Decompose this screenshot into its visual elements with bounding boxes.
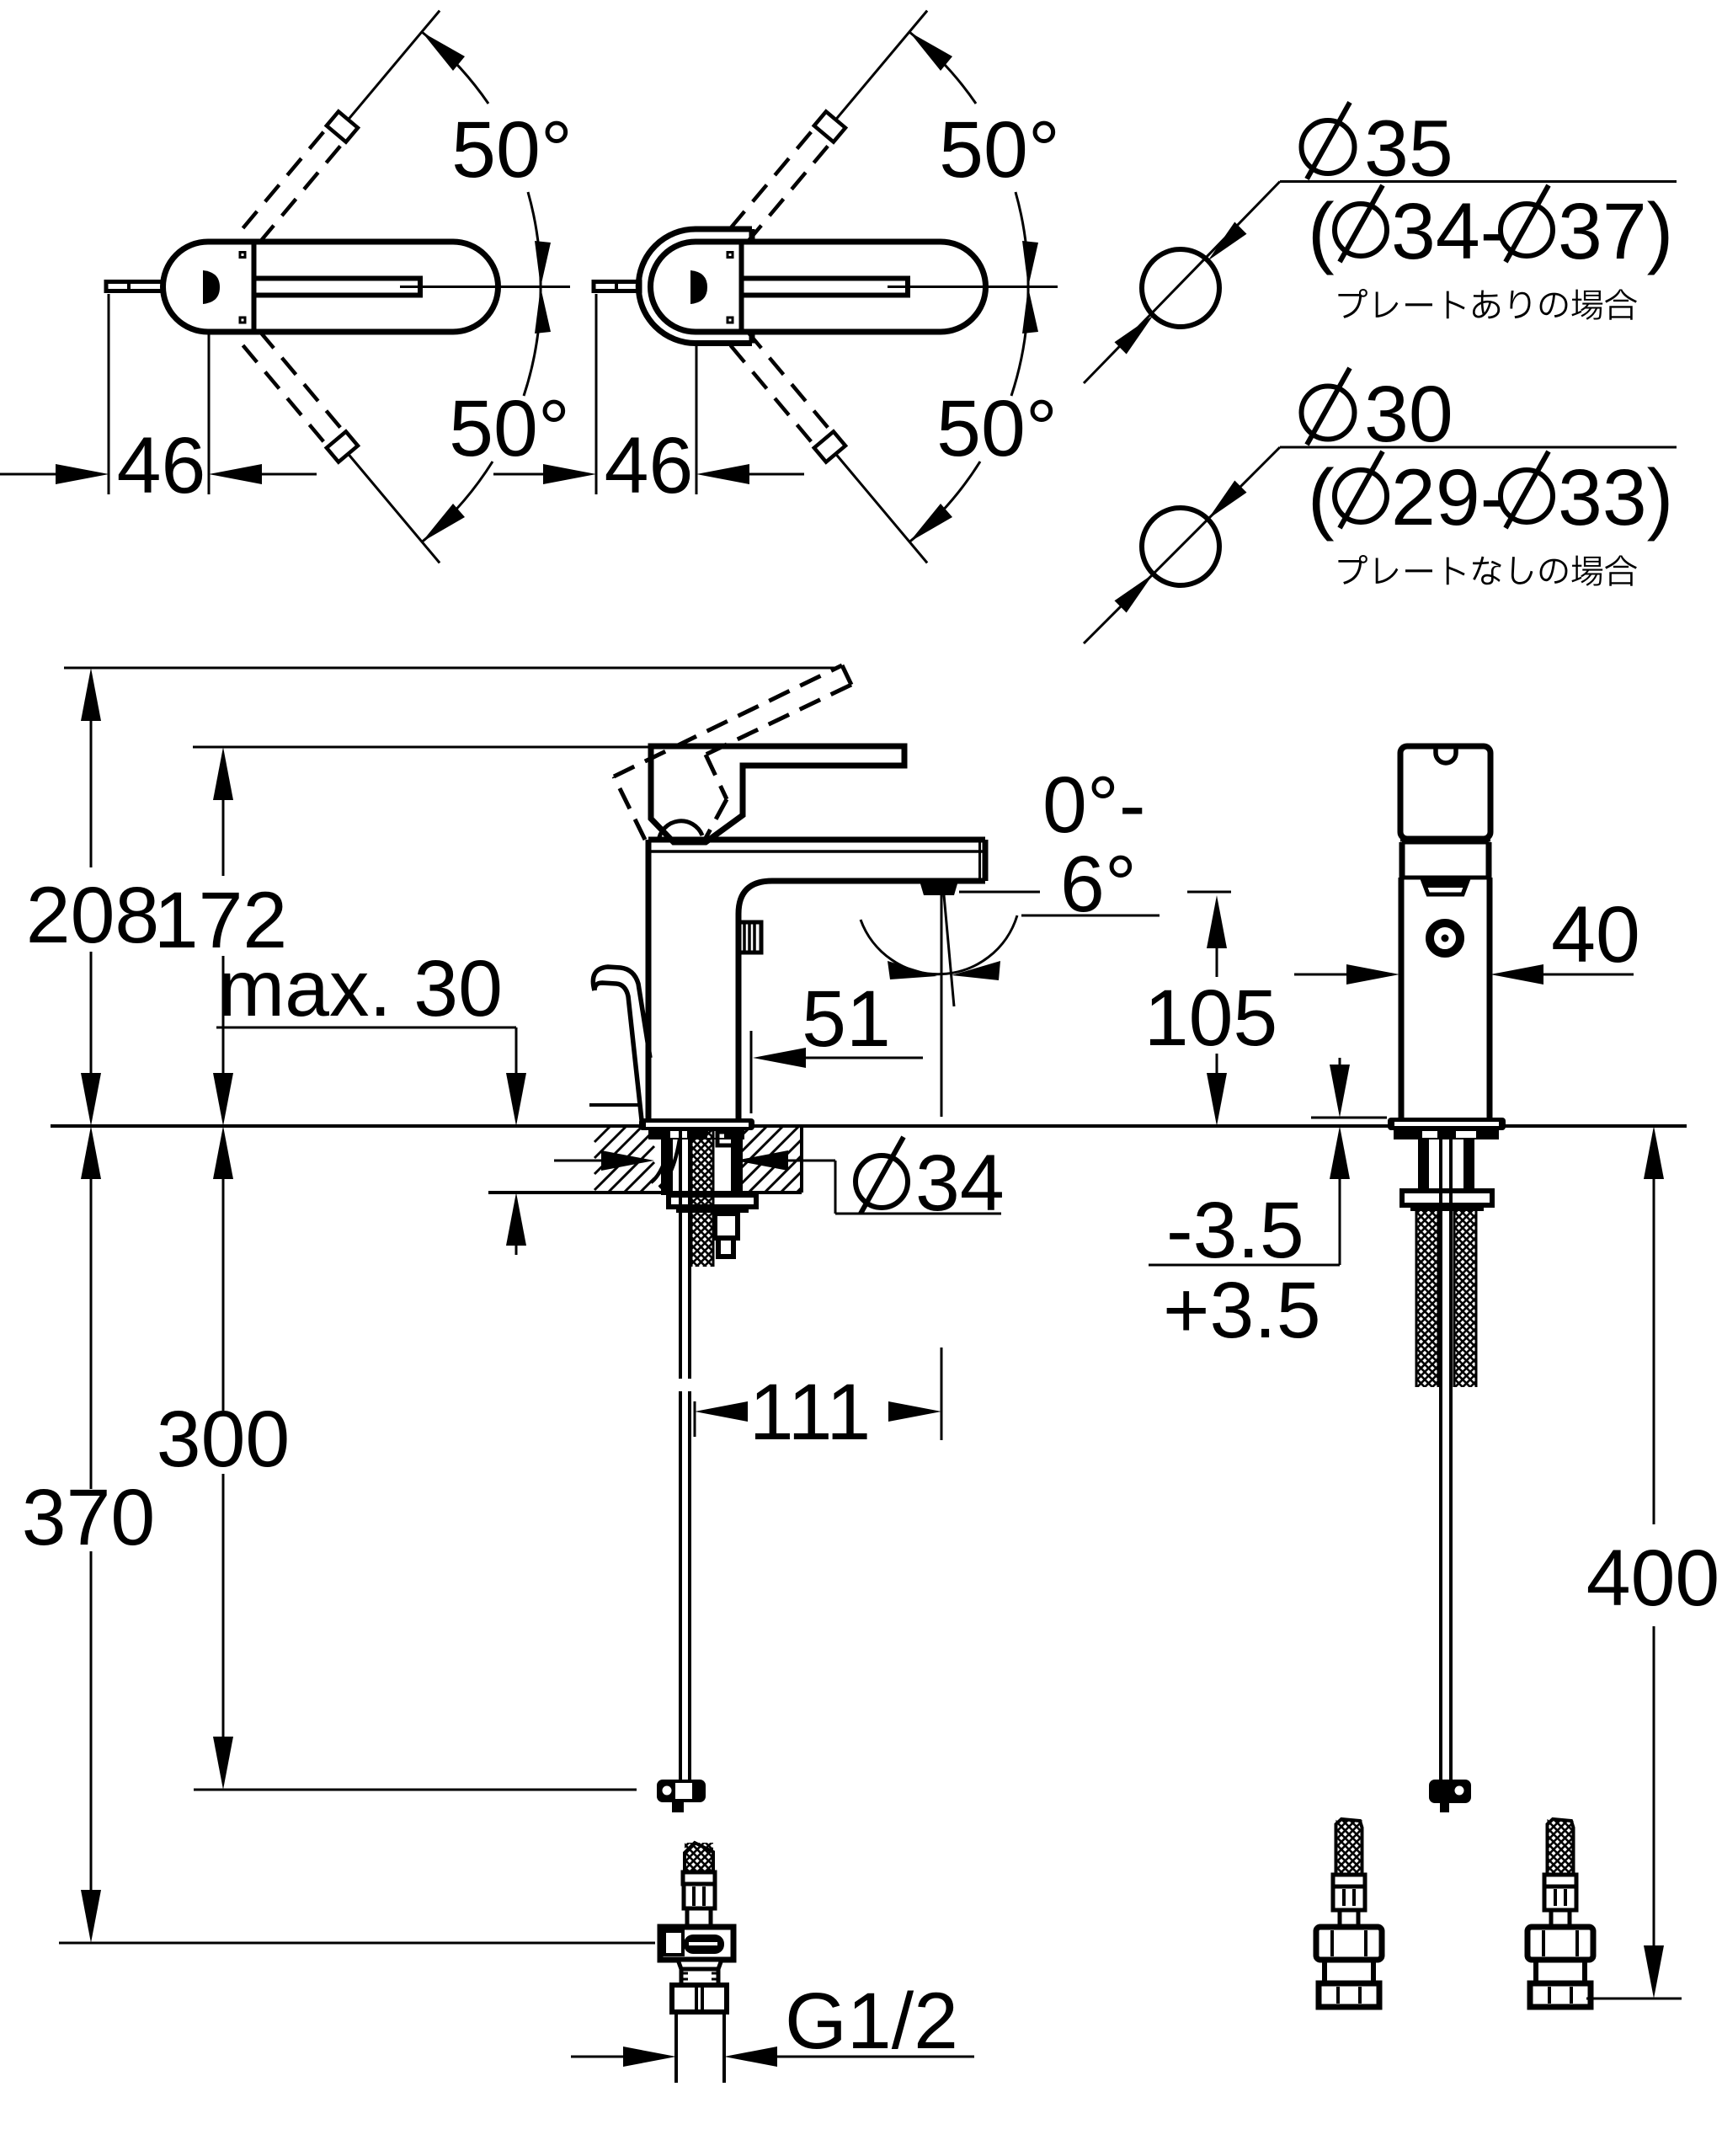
- svg-text:29-: 29-: [1391, 453, 1506, 542]
- svg-text:40: 40: [1551, 890, 1640, 979]
- svg-text:50°: 50°: [449, 384, 570, 473]
- svg-text:G1/2: G1/2: [785, 1977, 958, 2066]
- svg-text:35: 35: [1364, 104, 1453, 194]
- svg-text:208: 208: [26, 871, 160, 960]
- svg-text:50°: 50°: [451, 105, 573, 195]
- svg-text:105: 105: [1144, 974, 1278, 1063]
- svg-text:+3.5: +3.5: [1163, 1266, 1321, 1355]
- svg-text:50°: 50°: [936, 384, 1058, 473]
- svg-text:46: 46: [605, 421, 694, 510]
- svg-text:46: 46: [117, 421, 206, 510]
- svg-text:0°-: 0°-: [1042, 760, 1145, 850]
- svg-text:33): 33): [1558, 453, 1673, 542]
- svg-text:51: 51: [802, 974, 891, 1064]
- svg-text:30: 30: [1364, 370, 1453, 459]
- svg-text:370: 370: [22, 1473, 156, 1562]
- svg-text:(: (: [1308, 187, 1335, 276]
- svg-text:34-: 34-: [1391, 187, 1506, 276]
- svg-text:111: 111: [749, 1368, 871, 1457]
- svg-text:-3.5: -3.5: [1166, 1186, 1304, 1275]
- svg-text:(: (: [1308, 453, 1335, 542]
- svg-text:max. 30: max. 30: [218, 944, 503, 1033]
- svg-text:50°: 50°: [939, 105, 1060, 195]
- svg-text:34: 34: [915, 1139, 1005, 1228]
- svg-text:37): 37): [1558, 187, 1673, 276]
- svg-text:6°: 6°: [1060, 840, 1137, 929]
- svg-text:300: 300: [157, 1395, 291, 1484]
- svg-text:400: 400: [1586, 1534, 1720, 1623]
